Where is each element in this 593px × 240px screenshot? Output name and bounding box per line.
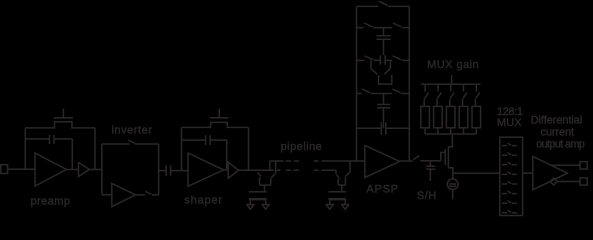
terminal square output minus [580,178,587,185]
switch S19 gain branch3 [450,84,454,98]
capacitor Cg1 gain branch1 [421,106,430,127]
multiplexer U1 128:1 MUX box [500,137,523,215]
wire inverter right rail [158,144,160,195]
svg-text:Differential: Differential [531,115,582,127]
switch mux cell3 [502,162,517,165]
svg-text:current: current [541,127,575,139]
wire bank sub-loop left drop [370,60,372,69]
wire buffer to inverter [90,169,102,171]
switch S12 sub-loop left [371,69,377,74]
capacitor Cg4 gain branch4 [459,106,468,127]
svg-text:shaper: shaper [184,194,222,206]
wire output minus [557,181,580,183]
switch mux cell7 [502,201,517,204]
capacitor C4 cell1 [249,191,267,193]
svg-text:MUX: MUX [497,117,522,129]
buffer B2 [228,162,238,178]
switch S5 cell2 write [336,175,339,186]
wire SH to MUX [453,172,500,174]
wire cell1 top node [260,185,271,192]
switch mux cell8 [502,210,517,213]
wire shaper cap branch down [226,140,228,170]
switch S2 inverter output [145,191,158,195]
wire APSP bank right rail [408,6,410,161]
ground cell2 right [341,205,349,210]
wire output plus [551,164,580,166]
op-amp A2 inverter [112,184,136,207]
wire inverter input stub [102,194,112,196]
ground cell2 left [326,205,334,210]
wire shaper feedback right rail [248,127,250,170]
wire preamp feedback right rail [94,128,96,170]
svg-text:pipeline: pipeline [281,141,322,153]
wire shaper feedback left rail [181,127,183,170]
wire mux gain feed stub [451,75,453,84]
wire inverter output tap [159,170,167,172]
switch S10 bank rung3 left [357,56,381,61]
wire shaper output [239,169,274,171]
wire mux gain bottom rail [425,133,476,135]
svg-text:output amp: output amp [536,139,585,151]
svg-text:MUX gain: MUX gain [427,59,479,71]
wire APSP bank left rail [356,6,358,161]
wire cell2 ground stubs [330,200,345,204]
wire bank sub-loop U [379,75,392,84]
current source I1 [447,179,458,190]
switch mux cell4 [502,172,517,175]
wire read bus start corner [269,161,271,170]
switch S3 cell1 write [258,172,261,185]
svg-text:preamp: preamp [31,196,71,208]
node inversion diamond [550,178,557,185]
switch mux cell2 [502,153,517,156]
switch S1 inverter top [102,140,159,144]
input terminal square [1,165,8,174]
wire shaper to buffer [224,169,229,171]
capacitor Cg5 gain branch5 [472,106,481,127]
capacitor C10 hold [426,161,435,181]
wire inverter apex [136,194,145,196]
op-amp A4 APSP [365,146,400,178]
wire branch4 stubs [462,99,465,134]
wire APSP output [400,160,413,162]
switch mux cell5 [502,181,517,184]
switch S6 cell2 read [345,161,350,185]
capacitor C1 preamp feedback [25,135,72,144]
switch mux cell1 [502,143,517,146]
wire preamp to buffer [67,169,79,171]
transistor M1 preamp reset switch [25,109,95,128]
switch S14 bank rung4 left [357,89,393,94]
switch S4 cell1 read [271,161,276,185]
switch S20 gain branch4 [463,84,467,98]
wire bank sub-loop right drop [389,60,391,68]
switch mux cell6 [502,191,517,194]
switch S7 bank rung1 [357,1,410,6]
wire inverter left rail [101,144,103,195]
wire cell1 ground stubs [250,200,265,204]
wire MUX to output amp [523,172,533,174]
wire branch5 stubs [474,99,477,134]
wire mux gain top rail [421,83,481,85]
capacitor C3 shaper feedback [182,135,227,145]
switch S11 bank rung3 right [385,56,409,61]
capacitor C7 bank rung3 [380,55,385,65]
switch S21 gain branch5 [476,84,480,98]
capacitor C8 bank rung4 [377,94,390,129]
wire branch2 stubs [436,99,439,134]
switch S13 sub-loop right [384,69,390,75]
buffer B1 [79,163,90,177]
wire cell2 top node [338,185,345,192]
wire write bus dashed [276,169,337,171]
ground cell1 right [262,205,270,210]
capacitor C9 bank rung5 [357,122,410,134]
transistor M3 source follower [445,134,453,173]
op-amp A1 preamp [35,153,67,186]
capacitor Cg3 gain branch3 [446,106,455,127]
wire branch3 stubs [449,99,452,134]
capacitor C2 coupling [166,165,188,175]
switch S17 gain branch1 [424,84,428,98]
op-amp A3 shaper [188,153,224,186]
ground cell1 left [246,205,254,210]
wire read bus [270,160,365,162]
svg-text:S/H: S/H [417,190,436,202]
wire branch1 stubs [423,99,426,134]
wire below current source [452,190,454,200]
capacitor Cg2 gain branch2 [434,106,443,127]
switch S16 sample-hold [413,155,440,160]
svg-text:inverter: inverter [112,124,153,136]
wire preamp feedback left rail [24,128,26,169]
op-amp A5 output amp [533,156,568,189]
wire gate step [441,152,446,160]
switch S9 bank rung2 right [393,23,409,28]
wire input to preamp [8,168,35,170]
switch S15 bank rung4 right [392,89,409,94]
capacitor C6 bank rung2 [376,28,390,55]
terminal square output plus [580,162,587,169]
svg-text:APSP: APSP [366,184,398,196]
wire write bus end corner [335,170,337,174]
transistor M2 shaper reset switch [182,109,249,128]
wire cap branch down [71,139,73,170]
switch S8 bank rung2 left [357,23,393,28]
wire source node to current source [452,173,454,179]
switch S18 gain branch2 [437,84,441,98]
capacitor C5 cell2 [329,191,347,193]
